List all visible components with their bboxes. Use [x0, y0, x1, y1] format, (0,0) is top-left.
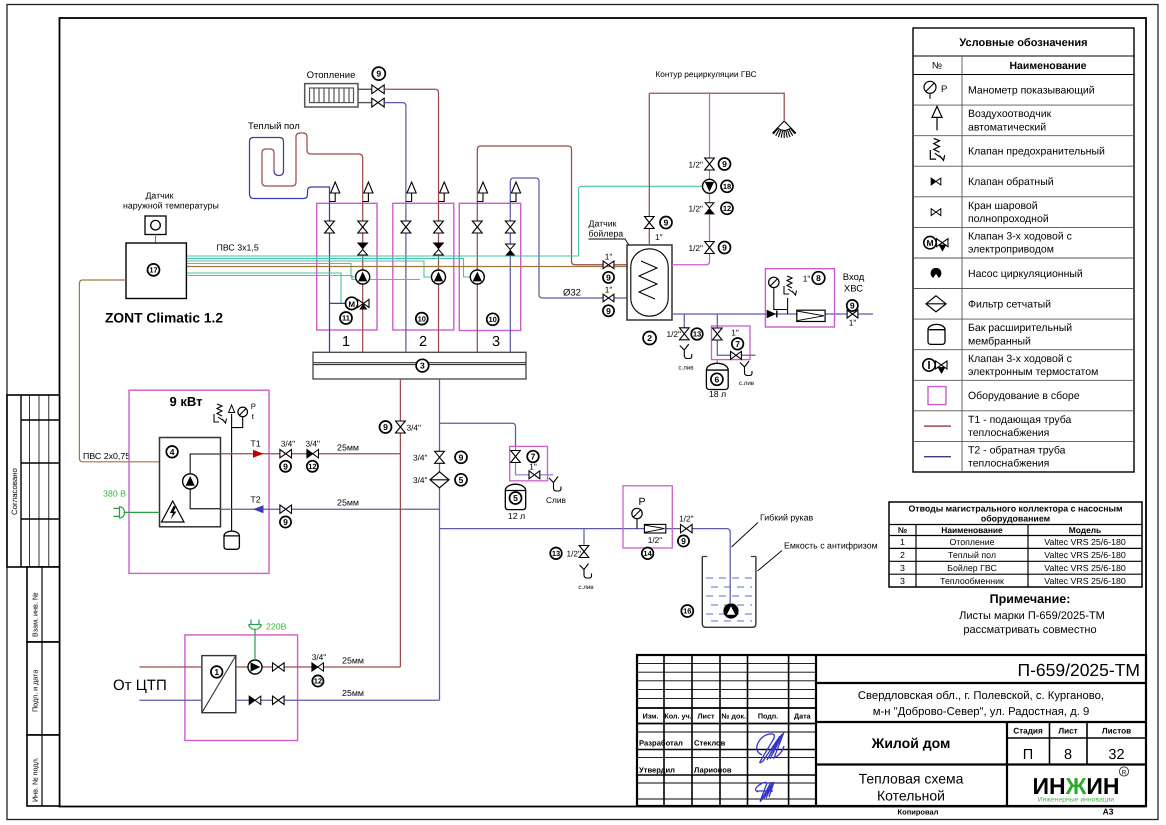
ball valve after box 14	[681, 524, 693, 532]
ball valve boiler heating return	[603, 294, 614, 302]
legend table frame	[913, 28, 1134, 472]
svg-text:3/4": 3/4"	[413, 453, 428, 463]
label circle 9 recirc bottom valve	[719, 242, 731, 254]
branch pipe to 12L expansion tank	[440, 423, 516, 446]
svg-text:Воздухоотводчик: Воздухоотводчик	[968, 108, 1052, 120]
svg-text:13: 13	[693, 330, 701, 339]
svg-text:М: М	[926, 238, 933, 248]
svg-text:1: 1	[900, 537, 905, 547]
boiler internal loop	[190, 454, 220, 509]
pump group1	[356, 270, 370, 284]
group3 supply pipe	[477, 146, 627, 352]
svg-text:Valtec VRS 25/6-180: Valtec VRS 25/6-180	[1044, 537, 1126, 547]
svg-text:Р: Р	[251, 402, 256, 411]
legend symbol фильтр сетчатый	[926, 296, 946, 312]
svg-text:Стеклов: Стеклов	[694, 739, 726, 748]
drain valve 18L	[731, 351, 742, 359]
label circle 9 recirc top valve	[719, 158, 731, 170]
svg-text:1/2": 1/2"	[689, 159, 704, 169]
label circle 6 18L tank	[711, 373, 723, 385]
T1 flow arrow	[253, 450, 264, 458]
sensor wire stub	[155, 235, 157, 244]
title block stage-sheet header	[1007, 737, 1146, 739]
svg-text:9: 9	[681, 536, 686, 546]
ball valve on pipe x=405.9	[401, 221, 411, 233]
svg-text:12 л: 12 л	[508, 511, 525, 521]
svg-text:Р: Р	[941, 84, 947, 95]
CTP assembly box	[185, 635, 298, 741]
svg-text:Контур рециркуляции ГВС: Контур рециркуляции ГВС	[655, 69, 756, 79]
svg-text:Клапан 3-х ходовой с: Клапан 3-х ходовой с	[968, 353, 1072, 365]
group2 return pipe	[405, 203, 407, 352]
radiator connection stubs	[358, 88, 372, 90]
svg-text:Листы марки П-659/2025-ТМ: Листы марки П-659/2025-ТМ	[959, 610, 1105, 622]
svg-text:Примечание:: Примечание:	[990, 592, 1071, 606]
svg-text:12: 12	[314, 677, 322, 686]
svg-text:Теплый пол: Теплый пол	[248, 121, 300, 132]
label circle 9 boiler outlet valve	[660, 217, 672, 229]
label circle 12 CTP check	[312, 675, 323, 686]
svg-text:18: 18	[723, 182, 731, 191]
svg-text:7: 7	[531, 452, 536, 462]
group3 return pipe to boiler coil	[510, 178, 627, 352]
svg-text:2: 2	[900, 550, 905, 560]
svg-text:3: 3	[420, 361, 425, 371]
svg-text:1": 1"	[655, 232, 663, 242]
svg-text:3/4": 3/4"	[413, 475, 428, 485]
svg-text:9: 9	[722, 243, 727, 253]
ball valve recirculation bottom	[705, 242, 715, 254]
svg-text:17: 17	[149, 266, 157, 275]
CTP secondary supply pipe	[236, 666, 401, 668]
ball valve CTP return	[273, 696, 285, 704]
drain hook 18L	[740, 361, 752, 376]
recirculation return pipe	[672, 93, 710, 265]
wire radiator supply T1	[384, 89, 438, 203]
svg-text:9: 9	[850, 301, 855, 311]
svg-text:9: 9	[606, 306, 611, 316]
svg-text:электроприводом: электроприводом	[968, 244, 1054, 256]
svg-text:Тепловая схема: Тепловая схема	[859, 771, 964, 787]
floor heating coil supply pipe T1	[262, 133, 363, 203]
svg-text:1/2": 1/2"	[667, 329, 682, 339]
svg-text:№: №	[898, 525, 907, 535]
ball valve T2	[280, 505, 292, 513]
3-way valve with motor group1	[346, 297, 358, 309]
svg-text:с.лив: с.лив	[678, 365, 694, 372]
T2 flow arrow	[253, 505, 264, 513]
svg-text:автоматический: автоматический	[968, 121, 1046, 133]
12L expansion assembly box	[510, 446, 548, 480]
label circle 9 riser valve	[380, 421, 392, 433]
drain hook fill line	[580, 564, 592, 579]
svg-text:1/2": 1/2"	[689, 204, 704, 214]
svg-text:9 кВт: 9 кВт	[170, 394, 203, 409]
manometer box 8	[769, 277, 779, 287]
recirculation pump 18	[703, 179, 717, 193]
svg-text:3: 3	[492, 334, 500, 350]
boiler electric warning triangle	[162, 501, 185, 522]
radiator heating panel	[305, 84, 358, 107]
svg-text:Наименование: Наименование	[1009, 60, 1086, 72]
ball valve on pipe x=477.3	[472, 221, 482, 233]
svg-text:Подп. и дата: Подп. и дата	[31, 670, 40, 712]
svg-text:9: 9	[459, 452, 464, 462]
svg-text:А3: А3	[1103, 807, 1114, 817]
svg-text:Изм.: Изм.	[643, 712, 659, 721]
svg-text:220В: 220В	[266, 622, 287, 632]
svg-text:Датчик: Датчик	[589, 219, 617, 229]
power plug 220V	[249, 620, 262, 630]
expansion assembly box 18L	[712, 326, 751, 360]
drain hook boiler	[680, 344, 692, 359]
drain branch boiler	[683, 314, 685, 328]
svg-text:бойлера: бойлера	[589, 229, 624, 239]
boiler manometer	[238, 407, 248, 417]
svg-text:ПВС 2х0,75: ПВС 2х0,75	[83, 451, 130, 461]
svg-text:Инв. № подл.: Инв. № подл.	[31, 757, 40, 802]
svg-text:1": 1"	[529, 462, 537, 472]
ball valve cold water inlet	[847, 310, 858, 318]
side stamp Подп. и дата cell	[27, 642, 60, 735]
svg-text:Подп.: Подп.	[758, 712, 778, 721]
svg-text:8: 8	[816, 273, 821, 283]
svg-text:От ЦТП: От ЦТП	[113, 677, 167, 694]
label circle 11 group1	[340, 312, 352, 324]
check valve CTP supply outside	[312, 663, 318, 671]
electric boiler assembly box 9kW	[129, 390, 269, 573]
pipe T1 from boiler	[221, 453, 401, 455]
svg-text:№: №	[932, 61, 942, 72]
group1 return pipe	[329, 203, 331, 352]
CTP pump	[248, 660, 262, 674]
svg-text:25мм: 25мм	[342, 688, 364, 698]
svg-text:теплоснабжения: теплоснабжения	[968, 458, 1049, 470]
title block frame	[637, 655, 1146, 806]
pipe into 18L box	[717, 314, 755, 355]
svg-text:Ø32: Ø32	[563, 288, 581, 299]
svg-text:5: 5	[513, 493, 518, 503]
svg-text:6: 6	[715, 374, 720, 384]
label circle 9 return riser valve	[455, 451, 467, 463]
label circle 1 heat exchanger	[211, 666, 223, 678]
svg-text:Клапан обратный: Клапан обратный	[968, 176, 1054, 188]
manometer box 14	[632, 508, 642, 518]
wire radiator return T2	[384, 103, 406, 204]
check valve CTP return	[249, 696, 255, 704]
pump group 3 assembly box	[459, 203, 520, 330]
ball valve CTP supply	[273, 663, 285, 671]
svg-text:1/2": 1/2"	[679, 514, 694, 524]
svg-text:9: 9	[664, 218, 669, 228]
air vent group1 supply	[363, 193, 369, 202]
side stamp Инв. № подл. cell	[27, 735, 60, 806]
label circle 9 heating inlet	[603, 272, 614, 283]
svg-text:Ларионов: Ларионов	[694, 766, 732, 775]
svg-text:Отопление: Отопление	[307, 70, 356, 81]
DHW supply riser from boiler top	[648, 93, 650, 245]
svg-text:Котельной: Котельной	[877, 788, 945, 804]
ball valve boiler hot outlet	[645, 217, 655, 229]
svg-text:11: 11	[342, 314, 350, 323]
label circle 9 T1 valve	[280, 461, 291, 472]
check valve T1	[307, 450, 313, 458]
svg-text:Клапан предохранительный: Клапан предохранительный	[968, 146, 1105, 158]
label circle 2 boiler	[643, 332, 656, 345]
svg-text:Дата: Дата	[794, 712, 812, 721]
svg-text:Вход: Вход	[843, 272, 865, 283]
electric boiler body	[160, 438, 221, 527]
svg-text:1: 1	[214, 667, 219, 677]
label circle 5 strainer	[455, 474, 467, 486]
svg-text:10: 10	[418, 314, 426, 323]
cold water inlet assembly box 8	[765, 269, 834, 327]
svg-text:Датчик: Датчик	[145, 191, 173, 201]
svg-text:8: 8	[1064, 747, 1072, 763]
svg-text:Кран шаровой: Кран шаровой	[968, 200, 1038, 212]
svg-text:Valtec VRS 25/6-180: Valtec VRS 25/6-180	[1044, 550, 1126, 560]
12L membrane tank	[505, 484, 525, 509]
svg-text:Модель: Модель	[1069, 525, 1101, 535]
ball valve supply riser	[396, 421, 406, 433]
svg-text:Слив: Слив	[546, 495, 566, 505]
label circle 13 boiler drain	[691, 328, 703, 340]
svg-text:Стадия: Стадия	[1013, 727, 1043, 736]
label circle 8	[812, 272, 825, 285]
svg-text:Фильтр сетчатый: Фильтр сетчатый	[968, 298, 1051, 310]
legend symbol манометр	[924, 81, 936, 93]
label circle 12 recirc check	[721, 202, 733, 214]
label circle 18 recirc pump	[721, 180, 733, 192]
svg-text:1": 1"	[605, 252, 613, 262]
check valve recirculation	[705, 203, 714, 208]
svg-text:1: 1	[342, 334, 350, 350]
CTP secondary return pipe	[236, 699, 440, 701]
svg-text:9: 9	[283, 461, 288, 471]
svg-text:Отопление: Отопление	[949, 537, 994, 547]
label circle 17 ZONT	[148, 264, 160, 276]
air vent group2 return	[406, 193, 412, 202]
reducer box 14	[644, 524, 665, 533]
svg-text:Р: Р	[638, 496, 645, 508]
svg-text:Отводы магистрального коллекто: Отводы магистрального коллектора с насос…	[908, 504, 1122, 514]
submersible pump in tank	[724, 604, 738, 618]
svg-text:Гибкий рукав: Гибкий рукав	[760, 513, 813, 523]
label circle 9 heating return	[603, 305, 614, 316]
18L membrane tank	[706, 363, 728, 389]
label circle 9 T2 valve	[280, 516, 291, 527]
svg-text:Манометр показывающий: Манометр показывающий	[968, 84, 1095, 96]
label circle 9 radiator valves	[372, 67, 385, 80]
air vent group3 return	[510, 193, 516, 202]
svg-text:1/2": 1/2"	[689, 243, 704, 253]
air vent group3 supply	[477, 193, 483, 202]
legend symbol воздухоотводчик	[932, 106, 942, 117]
label circle 10 group3	[487, 313, 499, 325]
CTP return pipe out	[140, 699, 202, 701]
svg-text:9: 9	[606, 272, 611, 282]
svg-text:3: 3	[900, 576, 905, 586]
svg-text:Valtec VRS 25/6-180: Valtec VRS 25/6-180	[1044, 563, 1126, 573]
svg-text:Т1: Т1	[250, 439, 260, 449]
drain hook 12L	[549, 477, 561, 492]
svg-text:32: 32	[1108, 747, 1124, 763]
antifreeze tank	[702, 557, 756, 628]
ball valve on pipe x=362.7	[358, 221, 368, 233]
svg-text:1/2": 1/2"	[648, 535, 663, 545]
group2 supply pipe	[438, 203, 440, 352]
svg-text:м-н "Доброво-Север", ул. Радос: м-н "Доброво-Север", ул. Радостная, д. 9	[873, 706, 1090, 718]
svg-text:Бак расширительный: Бак расширительный	[968, 322, 1072, 334]
ball valve 18L	[713, 328, 723, 340]
drain valve boiler	[680, 328, 690, 340]
svg-text:Valtec VRS 25/6-180: Valtec VRS 25/6-180	[1044, 576, 1126, 586]
DHW distribution pipe	[649, 93, 784, 120]
legend symbol клапан обратный	[931, 178, 936, 185]
svg-text:16: 16	[683, 607, 691, 616]
svg-text:Инженерные инновации: Инженерные инновации	[1038, 797, 1115, 804]
label circle 9 fill valve	[678, 535, 689, 546]
label circle 7 12L	[527, 451, 539, 463]
svg-text:3/4": 3/4"	[407, 422, 422, 432]
legend symbol T1 line	[924, 425, 951, 427]
legend symbol оборудование в сборе	[928, 387, 946, 405]
svg-text:9: 9	[722, 159, 727, 169]
svg-text:ZONT Climatic 1.2: ZONT Climatic 1.2	[105, 311, 223, 326]
label circle 14	[642, 548, 654, 560]
svg-text:380 В: 380 В	[103, 489, 126, 499]
ball valve T1	[280, 450, 292, 458]
svg-text:Наименование: Наименование	[941, 525, 1003, 535]
pump group 1 assembly box	[317, 203, 377, 330]
label circle 5 12L tank	[510, 492, 522, 504]
svg-text:9: 9	[376, 69, 381, 79]
svg-text:25мм: 25мм	[342, 655, 364, 665]
svg-text:полнопроходной: полнопроходной	[968, 213, 1049, 225]
svg-text:ПВС 3х1,5: ПВС 3х1,5	[217, 243, 259, 253]
pump group2	[432, 270, 446, 284]
boiler expansion vessel	[224, 531, 239, 549]
ZONT Climatic controller box	[126, 243, 186, 299]
svg-text:Клапан 3-х ходовой с: Клапан 3-х ходовой с	[968, 230, 1072, 242]
drain branch on fill line	[583, 529, 585, 546]
svg-text:1": 1"	[605, 285, 613, 295]
3-way valve with motor group1 bypass wire	[330, 302, 347, 304]
svg-text:ХВС: ХВС	[844, 284, 863, 295]
cable ПВС to boiler sensor	[186, 266, 631, 268]
svg-text:Утвердил: Утвердил	[639, 766, 675, 775]
svg-text:25мм: 25мм	[337, 442, 359, 452]
supply riser pipe T1	[399, 379, 401, 667]
legend symbol бак расширительный	[928, 324, 945, 344]
air vent group2 supply	[439, 193, 445, 202]
svg-text:9: 9	[383, 422, 388, 432]
safety valve box 8	[784, 276, 797, 295]
svg-text:Жилой дом: Жилой дом	[871, 735, 951, 751]
legend symbol клапан предохранительный	[930, 138, 944, 160]
label circle 13 drain	[550, 548, 562, 560]
legend symbol насос циркуляционный	[931, 268, 942, 279]
svg-text:25мм: 25мм	[337, 498, 359, 508]
svg-text:Емкость с антифризом: Емкость с антифризом	[784, 541, 878, 551]
svg-text:Бойлер ГВС: Бойлер ГВС	[947, 563, 997, 573]
svg-text:Листов: Листов	[1102, 727, 1131, 736]
check valve group3 return	[506, 244, 516, 250]
outdoor temperature sensor	[145, 216, 166, 235]
return riser pipe T2	[439, 379, 441, 700]
check valve group1 supply	[358, 243, 368, 249]
svg-text:7: 7	[735, 339, 740, 349]
svg-text:Оборудование в сборе: Оборудование в сборе	[968, 390, 1080, 402]
label circle 10 group2	[416, 313, 428, 325]
svg-text:Т1 - подающая труба: Т1 - подающая труба	[968, 414, 1071, 426]
DHW boiler tank body	[627, 245, 672, 320]
air vent group1 return	[330, 193, 336, 202]
legend symbol клапан 3-х ходовой с электронным термостатом	[923, 359, 935, 371]
label circle 7 18L	[732, 338, 744, 350]
boiler safety group riser	[231, 414, 233, 531]
svg-text:Кол. уч.: Кол. уч.	[664, 712, 691, 721]
svg-text:4: 4	[170, 447, 175, 457]
floor heating coil return pipe T2	[250, 138, 330, 204]
boiler safety valve symbol	[214, 404, 227, 423]
drain valve fill line	[579, 546, 589, 558]
svg-text:12: 12	[308, 462, 316, 471]
group1 supply pipe	[362, 203, 364, 352]
svg-text:с.лив: с.лив	[739, 380, 755, 387]
svg-text:Теплый пол: Теплый пол	[948, 550, 996, 560]
svg-text:1": 1"	[803, 274, 811, 284]
svg-text:1": 1"	[849, 318, 857, 328]
svg-text:Насос циркуляционный: Насос циркуляционный	[968, 268, 1083, 280]
svg-text:оборудованием: оборудованием	[981, 514, 1050, 524]
cable to 3-way valve group1	[186, 273, 345, 303]
svg-text:12: 12	[723, 204, 731, 213]
power plug 380V	[114, 506, 125, 518]
pipe T2 to boiler	[221, 508, 440, 510]
boiler air vent top	[229, 405, 235, 413]
legend symbol кран шаровой	[931, 209, 941, 216]
svg-text:наружной температуры: наружной температуры	[123, 201, 219, 211]
svg-text:мембранный: мембранный	[968, 335, 1031, 347]
signature 1	[757, 732, 784, 763]
svg-text:14: 14	[643, 549, 652, 558]
ball valve 12L	[511, 451, 521, 463]
pump group 2 assembly box	[393, 203, 454, 330]
svg-text:9: 9	[283, 517, 288, 527]
svg-text:Т2: Т2	[250, 494, 260, 504]
boiler internal pump	[183, 474, 198, 489]
svg-text:18 л: 18 л	[709, 389, 726, 399]
cable bundle ПВС from ZONT	[186, 255, 578, 257]
svg-text:3/4": 3/4"	[312, 652, 327, 662]
svg-text:Копировал: Копировал	[898, 808, 939, 817]
svg-text:Теплообменник: Теплообменник	[940, 576, 1004, 586]
svg-text:рассматривать совместно: рассматривать совместно	[963, 624, 1096, 636]
svg-text:электронным термостатом: электронным термостатом	[968, 366, 1098, 378]
svg-text:П: П	[1023, 747, 1033, 763]
plate heat exchanger	[202, 656, 236, 713]
label circle 12 T1 check	[307, 461, 318, 472]
pump group3	[470, 270, 484, 284]
svg-text:Лист: Лист	[1058, 727, 1077, 736]
side stamp Взам. инв. № cell	[27, 567, 60, 642]
svg-text:№ док.: № док.	[721, 712, 746, 721]
ball valve on pipe x=329.5	[325, 221, 335, 233]
boiler coil zigzag	[639, 261, 657, 299]
collector outlets table	[889, 502, 1142, 587]
svg-text:13: 13	[552, 549, 560, 558]
